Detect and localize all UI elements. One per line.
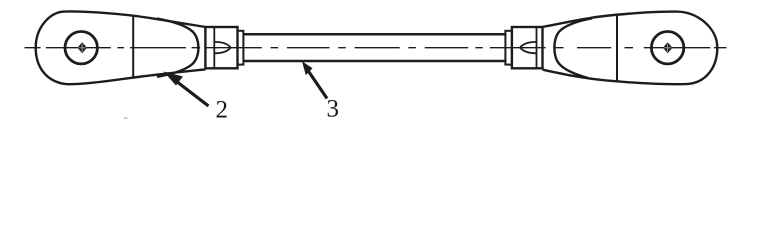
right boss line xyxy=(616,14,618,81)
tube top line xyxy=(243,33,506,36)
leader arrow 2 xyxy=(164,72,209,107)
left taper curve xyxy=(157,19,198,77)
svg-text:2: 2 xyxy=(216,97,229,120)
left eye circle xyxy=(65,32,97,64)
left eye-end outline xyxy=(36,11,206,84)
left stub xyxy=(238,31,244,65)
right stub xyxy=(505,31,512,65)
right clamp bullet xyxy=(520,42,536,53)
leader arrow 3 xyxy=(302,61,327,98)
right center diamond xyxy=(663,42,673,53)
left boss line xyxy=(132,15,134,77)
stray mark bottom-left xyxy=(124,117,126,119)
right eye circle xyxy=(651,32,683,64)
right collar inner line xyxy=(536,27,538,68)
left clamp bullet xyxy=(215,42,231,53)
svg-text:3: 3 xyxy=(327,95,340,119)
left center diamond xyxy=(77,42,87,53)
right collar xyxy=(512,27,543,68)
left collar inner line xyxy=(213,27,215,68)
right taper curve xyxy=(554,18,592,78)
left collar xyxy=(205,27,237,68)
centerline (dash-dot axis) xyxy=(25,47,727,49)
right eye-end outline xyxy=(543,12,718,85)
tube bottom line xyxy=(243,60,506,63)
